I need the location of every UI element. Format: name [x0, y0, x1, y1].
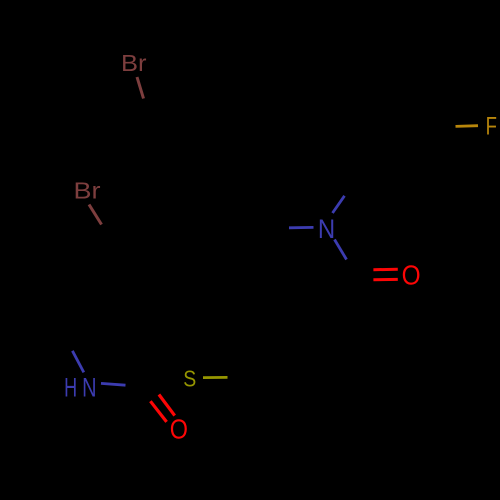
double bond C1=O2 line 1 — [150, 401, 166, 422]
bond N1-C15 (down-right half-bond stub) — [335, 240, 347, 260]
svg-text:F: F — [486, 113, 497, 141]
bond S-C16 (right half-bond stub) — [203, 376, 228, 379]
bond C12-F (half-bond stub) — [456, 124, 479, 128]
double bond C15=O1 line 1 — [373, 268, 397, 271]
bond N2-C1 (right half-bond stub) — [101, 383, 126, 385]
svg-text:O: O — [170, 414, 188, 445]
double bond C1=O2 line 2 — [159, 395, 175, 416]
bond N1-C9 (left half-bond stub) — [289, 226, 314, 229]
svg-text:S: S — [183, 366, 196, 392]
bond C4-Br1 (half-bond stub) — [137, 77, 144, 99]
bond N1-C10 (up-right half-bond stub) — [333, 196, 345, 213]
svg-text:Br: Br — [121, 50, 147, 76]
bond C6-Br2 (half-bond stub) — [89, 205, 102, 225]
svg-text:Br: Br — [74, 177, 101, 203]
svg-text:N: N — [82, 373, 96, 403]
svg-text:N: N — [318, 214, 335, 244]
double bond C15=O1 line 2 — [373, 278, 397, 281]
svg-text:O: O — [402, 260, 421, 291]
bond N2-C2 (up-left half-bond stub) — [72, 351, 83, 373]
svg-text:H: H — [64, 373, 77, 403]
